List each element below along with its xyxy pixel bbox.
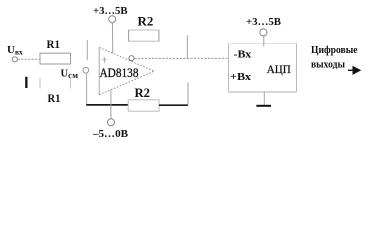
- resistor R2 (top feedback): [129, 15, 159, 42]
- wire: node A vertical (R1/+IN to top R2): [86, 40, 88, 60]
- wire: bottom R2 to +OUT node (thick + vertical): [159, 83, 188, 106]
- svg-text:АЦП: АЦП: [267, 62, 291, 76]
- arrow: digital output bus: [348, 66, 361, 75]
- input terminal circle: [12, 57, 17, 62]
- svg-text:+3…5В: +3…5В: [93, 5, 128, 17]
- wire: node C to bottom R2 (thick): [86, 104, 128, 106]
- resistor R1 (top): [40, 39, 71, 64]
- op-amp U1 AD8138: [99, 47, 154, 94]
- svg-text:R2: R2: [135, 86, 151, 100]
- resistor R1 (bottom): [40, 78, 71, 106]
- svg-text:AD8138: AD8138: [100, 66, 139, 80]
- resistor R2 (bottom feedback): [128, 86, 159, 111]
- svg-text:Цифровые: Цифровые: [311, 45, 358, 56]
- wire: input terminal to R1: [18, 58, 40, 60]
- power terminal +3...5V (right): [246, 16, 282, 47]
- svg-text:–5…0В: –5…0В: [92, 128, 129, 140]
- ground (under ADC): [256, 92, 271, 107]
- wire: -OUT to ADC -Bx input: [134, 57, 228, 59]
- svg-text:R2: R2: [138, 15, 154, 29]
- svg-text:+3…5В: +3…5В: [246, 16, 282, 28]
- svg-text:+Вх: +Вх: [230, 71, 252, 83]
- wire: node C vertical (Ucm down to bottom R2 rail): [86, 73, 88, 105]
- power terminal -5...0V: [92, 90, 129, 139]
- power terminal +3...5V (left): [93, 5, 128, 54]
- svg-text:R1: R1: [47, 39, 61, 51]
- svg-text:-Вх: -Вх: [234, 48, 252, 60]
- label digital outputs (Цифровые выходы): [311, 45, 358, 70]
- svg-text:R1: R1: [48, 93, 61, 105]
- label Ucm with terminal circle: [61, 67, 89, 80]
- svg-text:Uвх: Uвх: [7, 44, 23, 57]
- wire: top R2 to -OUT node (vertical): [186, 35, 188, 58]
- ground (input side plate): [25, 77, 27, 88]
- svg-text:Uсм: Uсм: [61, 68, 79, 80]
- svg-text:выходы: выходы: [311, 58, 346, 70]
- ADC box: [229, 44, 297, 93]
